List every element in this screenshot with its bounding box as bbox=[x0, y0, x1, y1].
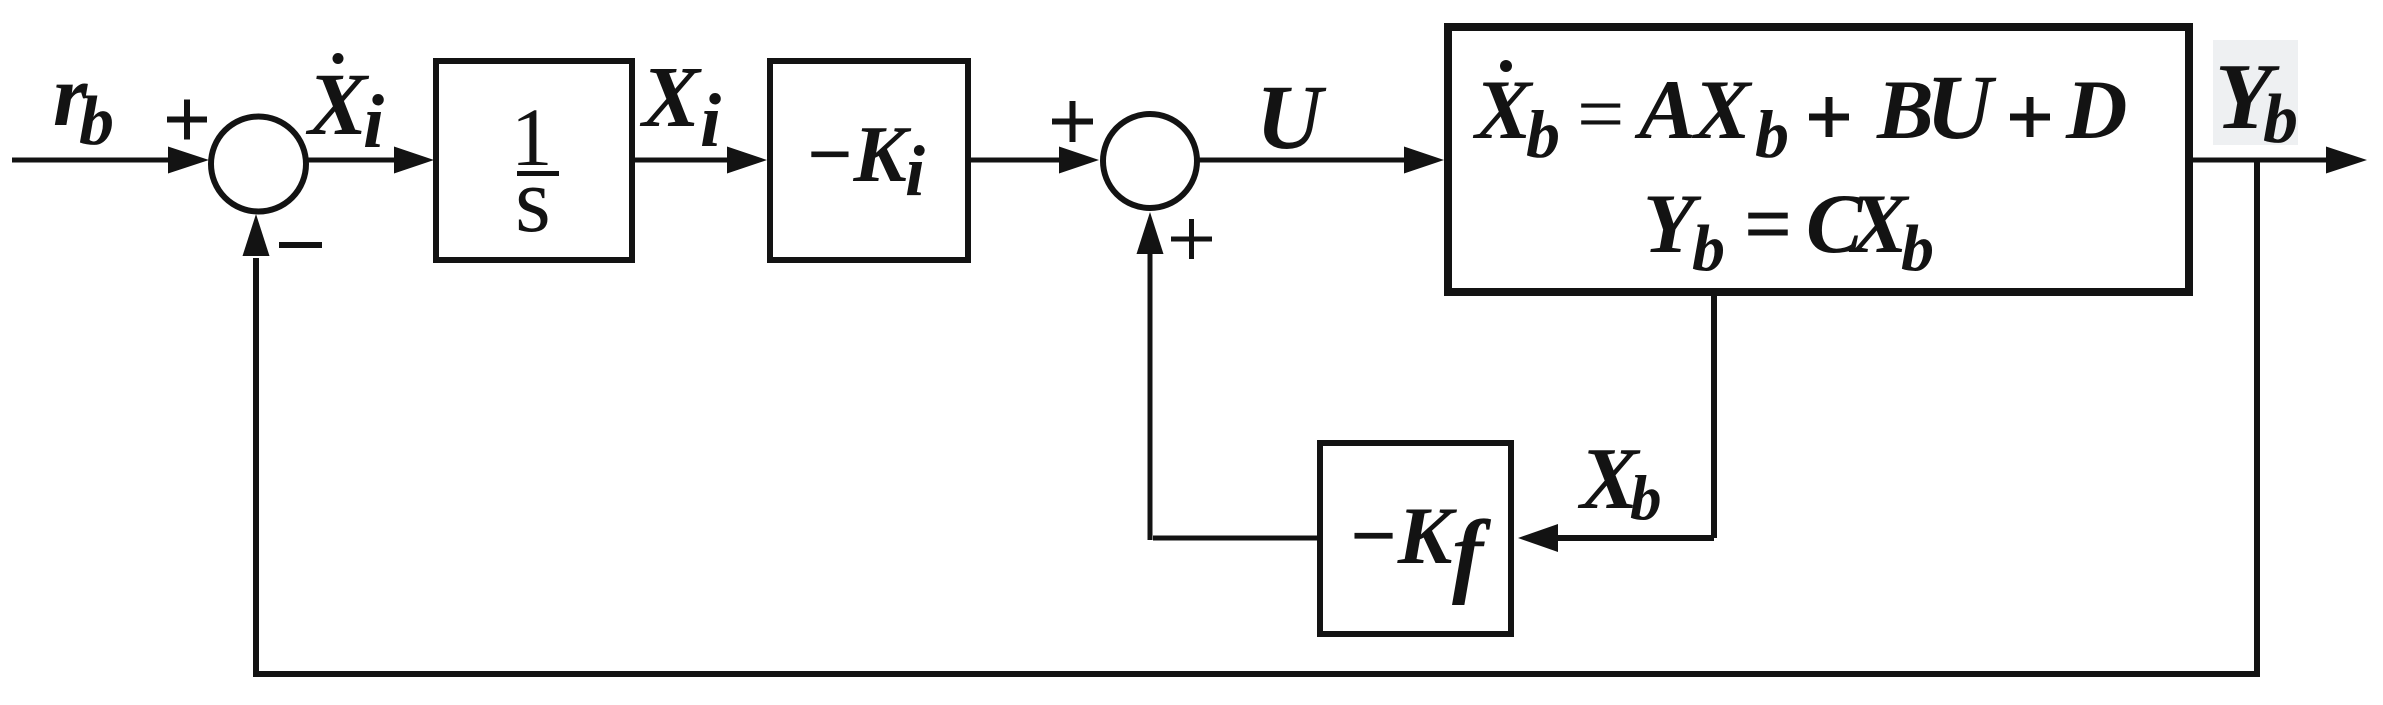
wire gain Ki to summing junction S2 bbox=[971, 158, 1062, 163]
wire integrator to gain Ki bbox=[635, 158, 731, 163]
svg-text:b: b bbox=[1901, 212, 1934, 285]
svg-text:i: i bbox=[905, 131, 925, 211]
arrowhead into summing junction S2 bbox=[1059, 147, 1099, 174]
plant equation line 1: Xdot_b = AX_b + BU + D bbox=[1472, 56, 2127, 172]
summing junction S2 bbox=[1103, 114, 1197, 208]
fraction bar bbox=[517, 171, 559, 176]
label -Ki bbox=[805, 111, 925, 211]
arrowhead into plant bbox=[1404, 147, 1444, 174]
wire output feedback drop and bottom run bbox=[256, 160, 2257, 674]
svg-text:b: b bbox=[1692, 212, 1725, 285]
svg-text:b: b bbox=[79, 83, 114, 160]
wire S2 to plant bbox=[1198, 158, 1406, 163]
arrowhead into S1 bottom bbox=[243, 214, 270, 256]
arrowhead into gain Ki bbox=[727, 147, 767, 174]
plus sign at summing junction S1 bbox=[167, 100, 207, 140]
label Y_b with highlight bbox=[2213, 40, 2298, 158]
arrowhead into gain Kf bbox=[1518, 524, 1558, 552]
label X_i bbox=[639, 48, 721, 163]
wire plant bottom tap to gain Kf bbox=[1556, 296, 1714, 538]
summing junction S1 bbox=[211, 117, 306, 212]
arrowhead into S2 bottom bbox=[1137, 212, 1164, 254]
svg-text:U: U bbox=[1926, 56, 1997, 158]
svg-text:=: = bbox=[1744, 177, 1792, 271]
wire S1 to integrator bbox=[305, 158, 398, 163]
svg-text:b: b bbox=[2263, 81, 2298, 158]
plant block state equations bbox=[1448, 27, 2189, 292]
plus sign lower-right of S2 bbox=[1171, 219, 1212, 259]
plant equation line 2: Y_b = CX_b bbox=[1643, 177, 1934, 285]
svg-text:X: X bbox=[1691, 63, 1753, 157]
integrator block 1/s bbox=[436, 61, 632, 260]
plus sign upper-left of S2 bbox=[1052, 101, 1093, 142]
wire plant output Y_b bbox=[2193, 158, 2329, 163]
label -Kf bbox=[1348, 490, 1492, 606]
arrowhead output bbox=[2326, 147, 2367, 174]
svg-text:A: A bbox=[1634, 63, 1696, 157]
arrowhead into summing junction S1 bbox=[168, 147, 209, 174]
svg-text:b: b bbox=[1526, 96, 1560, 172]
svg-text:i: i bbox=[363, 80, 384, 164]
svg-text:s: s bbox=[515, 149, 551, 251]
svg-text:U: U bbox=[1256, 66, 1327, 168]
wire input r_b bbox=[12, 158, 170, 163]
wire gain Kf to S2 bbox=[1150, 254, 1317, 540]
minus sign at summing junction S1 bbox=[279, 242, 322, 248]
svg-text:−K: −K bbox=[1348, 490, 1458, 581]
svg-text:D: D bbox=[2065, 63, 2127, 157]
svg-text:b: b bbox=[1630, 463, 1662, 533]
gain block -Ki bbox=[770, 61, 968, 260]
svg-text:X: X bbox=[1472, 63, 1534, 157]
svg-text:i: i bbox=[700, 79, 721, 163]
svg-text:−K: −K bbox=[805, 111, 911, 199]
svg-text:X: X bbox=[305, 56, 370, 154]
svg-text:b: b bbox=[1755, 96, 1789, 172]
svg-text:=: = bbox=[1577, 68, 1624, 161]
svg-text:X: X bbox=[639, 48, 702, 145]
gain block -Kf bbox=[1320, 443, 1511, 634]
label Xdot_i bbox=[305, 53, 384, 164]
label X_b feedback bbox=[1577, 431, 1662, 533]
arrowhead into integrator bbox=[394, 147, 434, 174]
label r_b bbox=[53, 48, 114, 160]
